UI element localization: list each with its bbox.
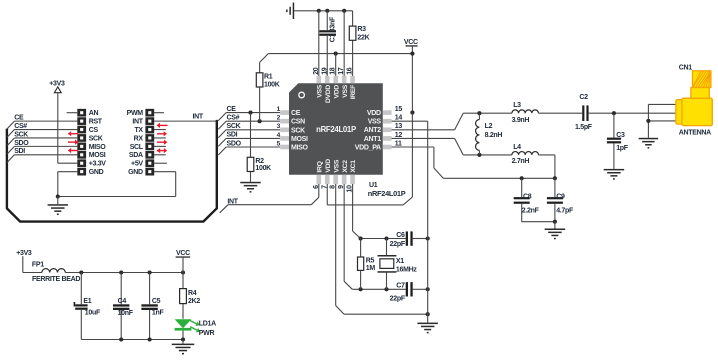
svg-text:E1: E1 bbox=[83, 298, 91, 305]
svg-text:C5: C5 bbox=[152, 298, 161, 305]
svg-text:MOSI: MOSI bbox=[291, 136, 308, 143]
svg-text:22pF: 22pF bbox=[390, 241, 406, 248]
svg-text:XC2: XC2 bbox=[342, 160, 349, 173]
svg-text:2K2: 2K2 bbox=[188, 298, 200, 305]
svg-text:C8: C8 bbox=[523, 194, 532, 201]
svg-text:C7: C7 bbox=[396, 283, 405, 290]
svg-text:16MHz: 16MHz bbox=[396, 267, 417, 274]
svg-text:XC1: XC1 bbox=[350, 160, 357, 173]
svg-text:CE: CE bbox=[291, 110, 301, 117]
svg-text:16: 16 bbox=[347, 67, 354, 75]
svg-text:+5V: +5V bbox=[131, 161, 143, 168]
svg-text:VSS: VSS bbox=[316, 84, 323, 97]
svg-text:SDO: SDO bbox=[227, 140, 242, 147]
svg-text:11: 11 bbox=[395, 140, 402, 147]
svg-text:3.9nH: 3.9nH bbox=[512, 117, 530, 124]
svg-text:1nF: 1nF bbox=[152, 309, 165, 316]
svg-text:19: 19 bbox=[321, 67, 328, 75]
svg-text:VDD: VDD bbox=[325, 159, 332, 173]
svg-text:SCK: SCK bbox=[89, 135, 103, 142]
svg-text:PWR: PWR bbox=[199, 330, 215, 337]
svg-text:22pF: 22pF bbox=[390, 295, 406, 302]
svg-text:20: 20 bbox=[313, 67, 320, 75]
svg-text:R1: R1 bbox=[264, 73, 273, 80]
svg-text:SCL: SCL bbox=[130, 144, 144, 151]
svg-text:10nF: 10nF bbox=[118, 310, 134, 317]
svg-text:C9: C9 bbox=[556, 194, 565, 201]
svg-text:8.2nH: 8.2nH bbox=[485, 132, 503, 139]
svg-text:CS#: CS# bbox=[14, 123, 27, 130]
svg-text:18: 18 bbox=[330, 67, 337, 75]
svg-text:C1 33nF: C1 33nF bbox=[330, 16, 337, 42]
svg-text:SDO: SDO bbox=[14, 140, 29, 147]
svg-text:+3V3: +3V3 bbox=[49, 80, 65, 87]
svg-text:C2: C2 bbox=[579, 94, 588, 101]
svg-text:FP1: FP1 bbox=[32, 262, 44, 269]
svg-text:22K: 22K bbox=[357, 35, 369, 42]
svg-text:CE: CE bbox=[14, 115, 24, 122]
svg-text:ANTENNA: ANTENNA bbox=[679, 130, 711, 137]
svg-text:CS#: CS# bbox=[227, 115, 240, 122]
svg-text:MISO: MISO bbox=[89, 144, 107, 151]
svg-text:4.7pF: 4.7pF bbox=[556, 208, 574, 215]
svg-text:X1: X1 bbox=[396, 258, 404, 265]
svg-text:1M: 1M bbox=[366, 265, 376, 272]
svg-text:VCC: VCC bbox=[404, 39, 418, 46]
svg-text:C4: C4 bbox=[118, 298, 127, 305]
svg-text:RST: RST bbox=[89, 119, 103, 126]
svg-text:IREF: IREF bbox=[350, 85, 357, 99]
svg-text:R3: R3 bbox=[357, 26, 366, 33]
svg-text:VDD: VDD bbox=[367, 110, 381, 117]
svg-text:14: 14 bbox=[395, 115, 403, 122]
svg-text:INT: INT bbox=[132, 119, 143, 126]
svg-text:VSS: VSS bbox=[368, 119, 382, 126]
svg-text:13: 13 bbox=[395, 123, 403, 130]
svg-text:VSS: VSS bbox=[342, 84, 349, 97]
svg-text:2.2nF: 2.2nF bbox=[522, 208, 540, 215]
svg-text:INT: INT bbox=[193, 114, 204, 121]
svg-text:VCC: VCC bbox=[176, 250, 190, 257]
svg-text:+3V3: +3V3 bbox=[16, 250, 32, 257]
svg-text:C3: C3 bbox=[616, 132, 625, 139]
svg-text:RX: RX bbox=[134, 135, 144, 142]
svg-text:PWM: PWM bbox=[127, 110, 144, 117]
svg-text:SDI: SDI bbox=[14, 148, 25, 155]
svg-text:VDD: VDD bbox=[333, 85, 340, 99]
svg-text:1pF: 1pF bbox=[616, 145, 629, 152]
svg-text:R4: R4 bbox=[188, 290, 197, 297]
svg-text:CE: CE bbox=[227, 106, 237, 113]
svg-text:R5: R5 bbox=[366, 257, 375, 264]
svg-text:SCK: SCK bbox=[227, 123, 241, 130]
svg-text:C6: C6 bbox=[396, 232, 405, 239]
svg-text:L2: L2 bbox=[485, 123, 493, 130]
svg-text:+3.3V: +3.3V bbox=[89, 161, 107, 168]
svg-text:17: 17 bbox=[338, 67, 345, 75]
svg-text:10uF: 10uF bbox=[85, 309, 101, 316]
svg-text:1.5pF: 1.5pF bbox=[575, 124, 593, 131]
svg-text:ANT1: ANT1 bbox=[364, 136, 381, 143]
svg-text:nRF24L01P: nRF24L01P bbox=[368, 189, 406, 198]
svg-text:L4: L4 bbox=[513, 144, 521, 151]
svg-text:2.7nH: 2.7nH bbox=[512, 158, 530, 165]
svg-text:ANT2: ANT2 bbox=[364, 127, 381, 134]
svg-text:100K: 100K bbox=[255, 165, 271, 172]
svg-text:SCK: SCK bbox=[14, 131, 28, 138]
svg-text:MISO: MISO bbox=[291, 145, 309, 152]
svg-text:SDI: SDI bbox=[227, 132, 238, 139]
svg-text:15: 15 bbox=[395, 106, 403, 113]
svg-text:SCK: SCK bbox=[291, 127, 305, 134]
svg-text:12: 12 bbox=[395, 132, 403, 139]
svg-text:CSN: CSN bbox=[291, 119, 305, 126]
svg-text:CN1: CN1 bbox=[679, 65, 693, 72]
svg-text:GND: GND bbox=[89, 169, 104, 176]
svg-text:AN: AN bbox=[89, 110, 99, 117]
svg-text:VSS: VSS bbox=[333, 159, 340, 172]
svg-text:GND: GND bbox=[128, 169, 143, 176]
svg-text:IRQ: IRQ bbox=[316, 161, 323, 172]
svg-text:SDA: SDA bbox=[129, 152, 143, 159]
svg-text:DVDD: DVDD bbox=[325, 85, 332, 103]
svg-text:100K: 100K bbox=[264, 82, 280, 89]
svg-text:FERRITE BEAD: FERRITE BEAD bbox=[32, 276, 80, 283]
svg-text:TX: TX bbox=[134, 127, 143, 134]
svg-text:INT: INT bbox=[227, 198, 238, 205]
svg-text:CS: CS bbox=[89, 127, 99, 134]
svg-text:VDD_PA: VDD_PA bbox=[355, 144, 381, 151]
svg-text:LD1A: LD1A bbox=[199, 320, 216, 327]
svg-text:MOSI: MOSI bbox=[89, 152, 106, 159]
svg-text:L3: L3 bbox=[513, 102, 521, 109]
svg-text:nRF24L01P: nRF24L01P bbox=[316, 125, 356, 134]
